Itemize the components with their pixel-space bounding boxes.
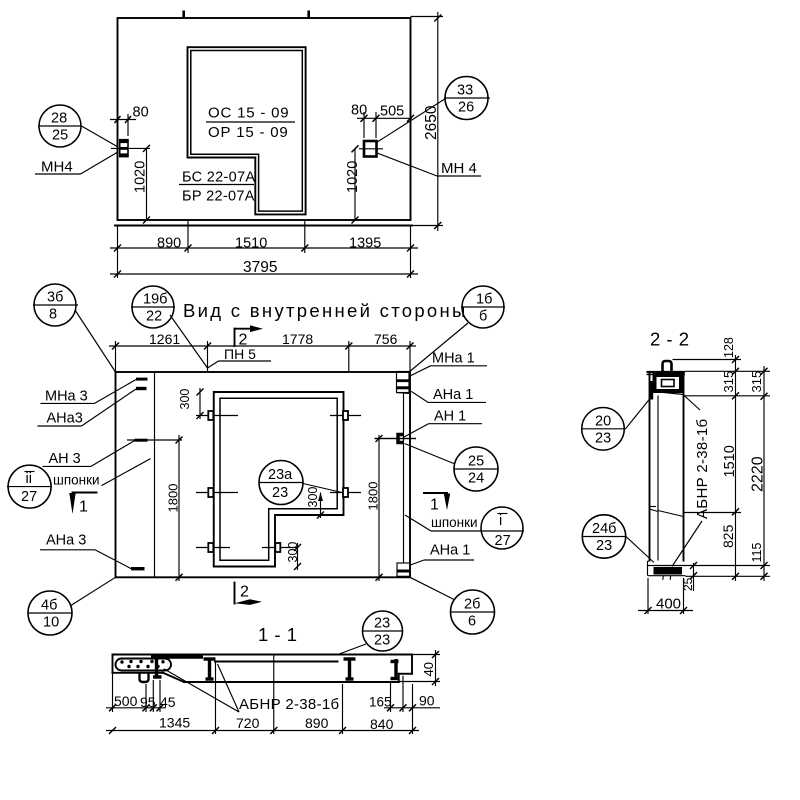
svg-text:АНа3: АНа3 — [47, 411, 83, 427]
anchor MH4 right — [359, 141, 383, 157]
svg-text:МНа 1: МНа 1 — [432, 351, 475, 367]
svg-text:23: 23 — [374, 633, 390, 649]
svg-text:ОС 15 - 09: ОС 15 - 09 — [208, 105, 289, 122]
svg-text:2 - 2: 2 - 2 — [650, 329, 690, 350]
dimension 1800 right — [366, 435, 417, 581]
svg-text:24б: 24б — [592, 521, 616, 537]
svg-text:27: 27 — [21, 489, 37, 505]
svg-text:20: 20 — [595, 414, 611, 430]
svg-text:400: 400 — [656, 596, 681, 613]
dimension 165 90 — [369, 676, 440, 712]
svg-text:1345: 1345 — [159, 715, 190, 731]
panel outline top view — [115, 18, 443, 226]
dimension 1345 720 890 840 — [106, 655, 419, 734]
dimension line 2: 315 2220 115 — [749, 366, 768, 581]
label AH3 — [43, 441, 135, 467]
svg-text:1778: 1778 — [282, 331, 313, 347]
anchor dash АН3 with axis — [127, 439, 182, 442]
svg-text:АН 3: АН 3 — [49, 451, 81, 467]
door opening inner view — [214, 392, 344, 567]
svg-text:45: 45 — [160, 694, 176, 710]
svg-text:825: 825 — [720, 524, 736, 548]
svg-text:33: 33 — [457, 83, 473, 99]
svg-text:500: 500 — [114, 693, 138, 709]
dimension 40 — [399, 650, 440, 686]
svg-text:1800: 1800 — [366, 482, 381, 511]
svg-text:23: 23 — [374, 616, 390, 632]
label AHa1 top — [411, 387, 486, 403]
svg-text:Вид с внутренней стороны: Вид с внутренней стороны — [183, 300, 468, 321]
rebar capsule with dots — [116, 659, 172, 671]
label MH4 right — [377, 153, 481, 177]
dimension 1020 left — [133, 145, 151, 224]
section 1-1 recessed band — [184, 662, 399, 683]
svg-text:2650: 2650 — [423, 105, 440, 140]
hatched anchor box 2-2 — [655, 375, 682, 391]
svg-text:3795: 3795 — [243, 259, 277, 276]
svg-text:300: 300 — [306, 487, 320, 508]
label MHa1 — [410, 351, 487, 377]
callout 2b/6 — [410, 577, 495, 634]
extension lines to dim line 1 — [684, 371, 771, 576]
bottom shoe 2-2 — [647, 561, 686, 580]
label shponki left — [53, 459, 151, 488]
callout 28/25 — [38, 105, 118, 147]
dimension 80 and 505 right — [351, 103, 414, 139]
label AHa3 top — [38, 389, 137, 427]
channel at right edge — [391, 659, 399, 680]
svg-text:8: 8 — [49, 307, 57, 323]
svg-text:80: 80 — [351, 103, 367, 119]
svg-text:1б: 1б — [476, 292, 492, 308]
svg-text:1: 1 — [430, 497, 439, 514]
section cut tick 1 right — [307, 11, 310, 18]
svg-text:1510: 1510 — [722, 445, 738, 477]
svg-text:90: 90 — [419, 693, 435, 709]
channel bar at T — [151, 656, 203, 678]
anchor loop U in section — [140, 673, 149, 682]
label MHa3 — [41, 380, 137, 405]
anchor dash АНа3 bottom — [131, 567, 145, 570]
svg-text:95: 95 — [140, 694, 156, 710]
svg-text:23: 23 — [596, 538, 612, 554]
svg-text:23: 23 — [595, 431, 611, 447]
callout 19b/22 — [131, 286, 208, 368]
svg-text:10: 10 — [43, 615, 59, 631]
tab AHa1 bottom right — [397, 563, 410, 576]
svg-text:300: 300 — [178, 389, 192, 410]
svg-text:720: 720 — [236, 715, 260, 731]
anchor MH4 left — [111, 140, 150, 157]
label shponki right with callout i/27 — [405, 507, 524, 549]
dimension line 1: 315 1510 825 — [720, 355, 739, 581]
svg-text:2б: 2б — [464, 597, 480, 613]
svg-text:1800: 1800 — [166, 484, 181, 513]
svg-text:ОР 15 - 09: ОР 15 - 09 — [208, 124, 289, 141]
svg-text:1 - 1: 1 - 1 — [258, 624, 298, 645]
svg-text:27: 27 — [495, 533, 511, 549]
dimension 80 left — [110, 105, 149, 137]
label PN 5 — [208, 346, 272, 368]
svg-text:МН4: МН4 — [41, 159, 73, 176]
section 1-1 left solid part — [113, 655, 185, 683]
dimension 128 — [673, 337, 742, 363]
dimension 1020 right — [345, 145, 361, 223]
svg-text:25: 25 — [52, 128, 68, 144]
channel rib right of band — [344, 658, 356, 680]
svg-text:АБНР 2-38-1б: АБНР 2-38-1б — [239, 696, 339, 713]
svg-text:2220: 2220 — [750, 456, 767, 492]
svg-text:АБНР 2-38-1б: АБНР 2-38-1б — [694, 419, 711, 519]
label AHa1 bottom — [409, 543, 474, 566]
section mark 2 top — [235, 325, 264, 348]
label AH1 — [404, 409, 482, 438]
svg-text:2: 2 — [240, 584, 249, 601]
label AHa3 bottom — [40, 533, 131, 569]
black strip left 2-2 — [650, 381, 653, 400]
anchor dash АНа3 top — [136, 387, 147, 390]
callout 25/24 — [405, 444, 499, 492]
svg-text:19б: 19б — [143, 292, 167, 308]
callout 20/23 — [582, 399, 651, 451]
door opening top view — [188, 47, 306, 214]
dimension 300 at step — [306, 487, 324, 519]
svg-text:АНа 1: АНа 1 — [433, 387, 473, 403]
callout 1b/6 — [409, 286, 506, 373]
section cut tick 1 left — [182, 11, 185, 18]
svg-text:i: i — [499, 513, 502, 529]
label ABNR 2-38-1b section 1-1 — [164, 664, 340, 713]
section mark 2 bottom — [235, 583, 263, 605]
svg-text:23: 23 — [272, 485, 288, 501]
section mark 1 left — [69, 493, 96, 516]
callout 3b/8 — [33, 284, 116, 372]
svg-text:1020: 1020 — [345, 161, 361, 193]
svg-text:24: 24 — [468, 471, 484, 487]
svg-text:26: 26 — [458, 100, 474, 116]
svg-text:4б: 4б — [41, 598, 57, 614]
callout ii/27 — [7, 465, 52, 508]
column body 2-2 — [650, 374, 684, 561]
svg-text:315: 315 — [721, 371, 736, 393]
svg-text:БР 22-07А: БР 22-07А — [182, 189, 255, 205]
dimension 300 top left — [178, 388, 204, 419]
svg-text:28: 28 — [51, 111, 67, 127]
svg-text:БС 22-07А: БС 22-07А — [182, 170, 255, 186]
svg-text:б: б — [479, 309, 487, 325]
svg-text:505: 505 — [380, 104, 404, 120]
label OC 15-09 / OP 15-09 — [206, 105, 295, 142]
dimension 1800 left — [166, 435, 183, 581]
svg-text:3б: 3б — [47, 290, 63, 306]
svg-text:1: 1 — [79, 499, 88, 516]
svg-text:1510: 1510 — [235, 236, 267, 252]
lifting loop stub 2-2 — [663, 361, 672, 372]
svg-text:315: 315 — [749, 371, 764, 393]
svg-text:23а: 23а — [268, 467, 293, 483]
dimension line 1261 1778 756 — [109, 331, 416, 372]
dimension 500 95 45 — [106, 673, 176, 712]
svg-text:890: 890 — [305, 715, 329, 731]
label BC 22-07A / BP 22-07A — [179, 170, 255, 205]
top plate 2-2 — [647, 372, 686, 375]
svg-text:40: 40 — [421, 662, 436, 676]
svg-text:АН 1: АН 1 — [434, 409, 466, 425]
svg-text:890: 890 — [157, 236, 181, 252]
callout 23a/23 — [259, 461, 342, 505]
callout 23/23 section 1-1 — [337, 611, 403, 655]
tab MHa1 top right — [397, 372, 412, 394]
svg-text:165: 165 — [369, 695, 392, 710]
dimension 2650 — [411, 12, 444, 231]
svg-text:80: 80 — [133, 105, 149, 121]
tab AH1 middle right — [375, 435, 417, 443]
dimension 3795 — [110, 253, 418, 278]
svg-text:АНа 1: АНа 1 — [430, 543, 470, 559]
break line 2-2 — [650, 507, 684, 517]
keys on opening right edge — [330, 411, 361, 497]
svg-text:300: 300 — [286, 542, 300, 563]
svg-text:1020: 1020 — [133, 161, 149, 193]
svg-text:МН 4: МН 4 — [441, 160, 477, 177]
channel rib left of band — [204, 658, 216, 680]
callout 4b/10 — [28, 577, 116, 635]
svg-text:25: 25 — [468, 454, 484, 470]
svg-text:115: 115 — [750, 543, 764, 563]
callout 33/26 — [377, 77, 491, 143]
anchor dash МНа3 — [136, 378, 148, 381]
svg-text:МНа 3: МНа 3 — [45, 389, 88, 405]
label ABNR 2-38-1b 2-2 — [672, 395, 711, 567]
label MH4 left — [35, 153, 117, 176]
svg-text:ПН 5: ПН 5 — [224, 346, 256, 362]
section 1-1 right part with step — [399, 655, 412, 683]
dimension 25 — [681, 562, 697, 591]
svg-text:1395: 1395 — [349, 236, 381, 252]
svg-text:840: 840 — [370, 716, 394, 732]
dimension 400 — [638, 578, 693, 614]
callout 24b/23 — [582, 515, 654, 563]
svg-text:756: 756 — [374, 331, 398, 347]
svg-text:128: 128 — [722, 337, 736, 358]
svg-text:1261: 1261 — [149, 331, 180, 347]
section mark 1 right — [424, 493, 450, 514]
svg-text:шпонки: шпонки — [53, 473, 100, 488]
section 1-1 panel top edge — [113, 654, 413, 656]
svg-text:ii: ii — [26, 471, 32, 487]
svg-text:шпонки: шпонки — [431, 515, 478, 530]
svg-text:6: 6 — [468, 614, 476, 630]
key on lower column right edge — [262, 543, 298, 552]
dimension 300 bottom — [286, 542, 301, 570]
svg-text:АНа 3: АНа 3 — [46, 533, 86, 549]
panel outline inner view — [116, 372, 411, 577]
svg-text:22: 22 — [146, 309, 162, 325]
keys on opening left edge — [196, 411, 238, 552]
dimension line 890 1510 1395 — [110, 220, 418, 253]
